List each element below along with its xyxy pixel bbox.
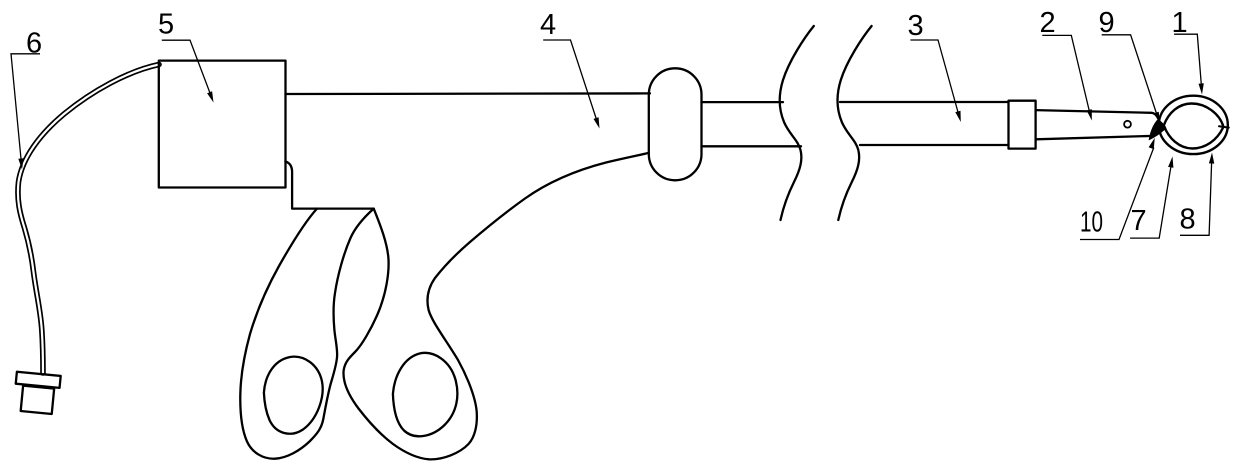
arrowhead 8: [1209, 153, 1214, 164]
tube 3 bottom line: [860, 144, 1009, 146]
handle body outline (step + right handle + sweep to capsule): [285, 153, 648, 459]
svg-text:6: 6: [26, 28, 42, 60]
control box 5: [159, 61, 286, 188]
arrowhead 1: [1199, 83, 1204, 94]
arrowhead 3: [955, 111, 961, 122]
tube 3 top line: [840, 101, 1009, 103]
leader 1: [1174, 34, 1201, 87]
plug collar bar: [16, 372, 61, 388]
handle right finger hole: [393, 353, 457, 436]
svg-text:10: 10: [1080, 207, 1103, 239]
arrowhead 7: [1168, 157, 1173, 168]
arrowhead 5: [207, 91, 213, 102]
leader 7: [1130, 163, 1171, 238]
plug body block: [21, 386, 55, 414]
wire: top shaft line 4: [286, 92, 651, 95]
capsule joint: [649, 68, 702, 180]
arrowhead 4: [594, 117, 600, 128]
arrowhead 6: [18, 158, 23, 169]
loop inner ring 7 (lens): [1164, 104, 1224, 149]
leader 8: [1180, 160, 1212, 235]
leader 5: [162, 40, 212, 97]
tube 2 outline: [1036, 110, 1160, 139]
cable 6 outer: [18, 65, 159, 374]
svg-text:4: 4: [540, 9, 556, 41]
leader 3: [910, 40, 958, 114]
svg-text:5: 5: [158, 9, 174, 41]
leader 4: [543, 40, 597, 121]
svg-text:1: 1: [1172, 7, 1188, 39]
handle left finger hole: [264, 357, 323, 434]
leader 9: [1102, 35, 1157, 115]
leader 2: [1042, 35, 1090, 113]
svg-text:8: 8: [1180, 204, 1196, 236]
clip wedge 9 (filled): [1149, 119, 1167, 140]
svg-text:3: 3: [908, 10, 924, 42]
svg-text:2: 2: [1040, 7, 1056, 39]
leader 6: [11, 54, 40, 162]
cable 6 inner white: [18, 65, 159, 374]
leader 10: [1080, 148, 1154, 240]
svg-text:9: 9: [1099, 7, 1115, 39]
collar on tube 3: [1009, 101, 1036, 149]
arrowhead 10: [1149, 138, 1155, 149]
handle left ring: [240, 209, 373, 459]
svg-text:7: 7: [1131, 205, 1147, 237]
break squiggle 1: [780, 26, 814, 220]
shaft pair right of capsule: top: [702, 101, 784, 103]
arrowhead 2: [1087, 109, 1092, 120]
arrowhead 9: [1154, 112, 1160, 123]
loop outer ring 1: [1159, 96, 1228, 154]
shaft pair right of capsule: bottom: [702, 145, 802, 147]
loop joint tick 8: [1219, 126, 1229, 127]
break squiggle 2: [838, 26, 872, 220]
pin hole on tube 2: [1124, 121, 1131, 128]
